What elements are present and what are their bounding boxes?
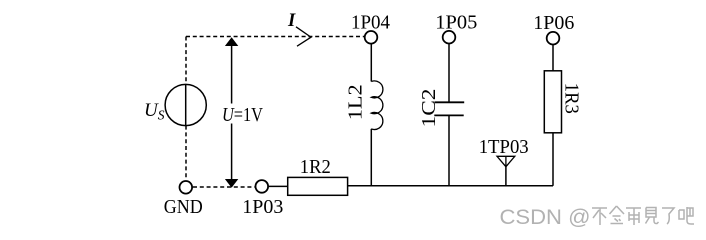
current arrow chevron — [296, 27, 311, 46]
svg-text:1R3: 1R3 — [561, 83, 583, 114]
wire dashed bottom — [193, 186, 255, 188]
svg-text:1L2: 1L2 — [345, 84, 367, 120]
wire 1P04 down to inductor — [370, 44, 372, 82]
char le — [662, 208, 674, 224]
svg-text:1P03: 1P03 — [242, 196, 283, 218]
wire 1P05 down to capacitor — [448, 44, 450, 102]
terminal 1P06 — [547, 32, 560, 45]
voltage source internal line — [185, 84, 187, 125]
voltage arrow head down — [225, 179, 238, 188]
wire 1P03 to resistor R2 — [269, 185, 288, 187]
wire bottom bus — [348, 185, 553, 187]
terminal 1P04 — [365, 31, 378, 44]
svg-text:1P04: 1P04 — [351, 12, 390, 34]
wire dashed left vertical — [185, 37, 187, 181]
wire 1P06 down to resistor R3 — [552, 45, 554, 71]
svg-text:CSDN @: CSDN @ — [500, 205, 591, 229]
svg-text:GND: GND — [164, 196, 203, 218]
resistor 1R3 body — [544, 71, 561, 133]
svg-text:1P06: 1P06 — [533, 12, 574, 34]
terminal 1P05 — [443, 31, 456, 44]
svg-text:U=1V: U=1V — [222, 104, 263, 126]
svg-text:1TP03: 1TP03 — [479, 136, 529, 158]
inductor 1L2 coil — [371, 81, 383, 130]
svg-text:US: US — [144, 100, 165, 123]
svg-text:1R2: 1R2 — [300, 156, 331, 178]
wire dashed top — [186, 36, 364, 38]
voltage arrow U shaft — [231, 45, 233, 181]
char ba — [679, 207, 694, 224]
white backing for U=1V label — [221, 104, 265, 124]
capacitor 1C2 plates — [434, 102, 464, 115]
wire inductor to bottom bus — [370, 129, 372, 186]
char bu — [592, 208, 607, 225]
wire test point to bottom bus — [505, 167, 507, 186]
svg-text:1C2: 1C2 — [418, 89, 440, 128]
voltage source U_S circle — [165, 84, 206, 125]
svg-text:1P05: 1P05 — [435, 12, 477, 34]
test point 1TP03 triangle — [497, 156, 515, 166]
terminal 1P03 — [255, 180, 268, 193]
watermark CJK glyph strokes — [592, 206, 694, 225]
char jian — [646, 208, 659, 224]
char hui — [610, 206, 625, 224]
terminal GND — [180, 181, 193, 194]
char zai — [626, 208, 641, 225]
wire resistor R3 to bottom bus — [552, 133, 554, 186]
voltage arrow head up — [225, 37, 238, 46]
svg-text:I: I — [287, 11, 296, 31]
wire capacitor to bottom bus — [448, 115, 450, 185]
resistor 1R2 body — [288, 177, 348, 195]
